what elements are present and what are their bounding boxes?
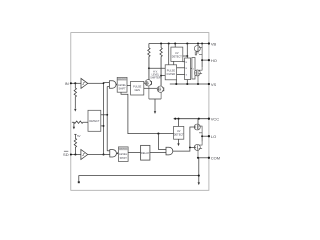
resistor R-IN pulldown (74, 83, 76, 108)
svg-text:SHIFT: SHIFT (118, 88, 126, 91)
svg-text:FILTER: FILTER (167, 73, 176, 76)
pin HO (202, 59, 209, 61)
svg-text:DETECT: DETECT (174, 134, 184, 137)
transistor QN-H (HO pull-down) (194, 67, 202, 84)
wire G1 out arrow (115, 84, 118, 86)
transistor M1 (HV level shift) (145, 58, 152, 100)
wire V2 vertical (UV/SD bus) (106, 87, 108, 151)
node B stub to pulse filter (161, 75, 165, 77)
node IN (junction dots) (70, 82, 72, 84)
svg-text:SHIFT: SHIFT (120, 157, 128, 160)
pin VCC (208, 118, 210, 120)
wire delay to gate G3 (150, 152, 166, 154)
ground arrow (level shift source) (154, 111, 156, 114)
block pulse generator U-PG (131, 81, 144, 95)
supply tick +5V (74, 133, 76, 135)
block pulse filter U-PF (165, 65, 176, 80)
svg-text:DETECT: DETECT (89, 120, 99, 123)
block driver U-D1 (192, 58, 195, 80)
wire bottom rail (79, 176, 199, 182)
resistor R-SD pullup (74, 134, 76, 154)
svg-text:IN: IN (65, 81, 69, 86)
wire HO node vertical (201, 60, 203, 67)
wire schmitt-SD to gate G2 (88, 154, 110, 156)
border frame (71, 33, 209, 191)
block delay U-DLY (141, 145, 150, 160)
wire UVD out2 (101, 125, 104, 127)
wire VB to pulse filter (168, 44, 170, 65)
svg-text:VDD/VCC: VDD/VCC (119, 149, 129, 151)
svg-text:VDD/VCC: VDD/VCC (117, 79, 127, 81)
wire LS1 to pulse gen (127, 85, 131, 87)
wire COM down to ground arrow (198, 158, 200, 183)
ground arrow (UVL) (178, 139, 180, 144)
schmitt buffer U-SD (81, 150, 88, 160)
pin VS (208, 83, 210, 85)
transistor QN-L (LO pull-down) (194, 142, 202, 158)
pin SD wire (71, 154, 81, 156)
pin IN wire (71, 82, 81, 84)
node bottom-left termination (78, 181, 80, 183)
wire G2 out arrow (116, 152, 119, 154)
svg-text:SHIFTER: SHIFTER (150, 76, 161, 79)
gate G2 (low side) (110, 150, 117, 157)
rail VCC (174, 118, 209, 120)
ground arrow (R-UVD) (73, 127, 75, 130)
wire interlock from LS1 down (121, 92, 174, 133)
wire pulse filter to VS rail (175, 80, 177, 84)
wire PG out1 to M1 gate (144, 82, 145, 84)
pin COM (198, 157, 209, 159)
wire LO node vertical (201, 136, 203, 141)
wire LS2 to delay (128, 152, 141, 154)
svg-text:5V: 5V (77, 134, 81, 138)
transistor QP-L (LO pull-up) (194, 124, 202, 136)
svg-text:DETECT: DETECT (172, 56, 182, 59)
svg-text:VS: VS (211, 82, 217, 87)
wire UVH bottom to pulse filter (173, 61, 175, 64)
svg-text:COM: COM (211, 156, 220, 161)
svg-text:LEVEL: LEVEL (119, 153, 127, 156)
schmitt buffer U-IN (81, 78, 88, 88)
block latch U-L1 (185, 58, 191, 80)
svg-text:HO: HO (211, 58, 217, 63)
wire VCC to UVL (178, 119, 180, 127)
svg-text:GEN: GEN (134, 89, 140, 92)
svg-text:SD: SD (63, 152, 69, 157)
wire V1 vertical (IN/UV bus) (103, 83, 105, 155)
wire UVD out1 (101, 114, 107, 116)
wire latch to driver (191, 67, 192, 69)
transistor QP-H (HO pull-up) (194, 46, 202, 61)
wire PG out2 to M2 gate (144, 87, 157, 89)
block UV detect low U-UVL (174, 126, 184, 139)
node A stub to pulse filter (149, 67, 165, 69)
block UV detect high U-UVH (171, 47, 183, 61)
wire schmitt-IN to gate G1 (88, 82, 104, 84)
resistor R1 (level shift load) (148, 44, 150, 81)
svg-text:LO: LO (211, 134, 216, 139)
wire G3 out to driver gates (173, 127, 195, 151)
svg-text:VCC: VCC (211, 117, 220, 122)
svg-text:LEVEL: LEVEL (118, 84, 126, 87)
rail VB (149, 43, 209, 45)
block level-shift high U-LS1 (117, 77, 127, 92)
pin LO (202, 135, 209, 137)
wire M1/M2 sources join (149, 98, 161, 100)
resistor R2 (level shift load) (160, 44, 162, 87)
wire VB to UVH (174, 44, 176, 48)
resistor R-UVD (72, 121, 88, 123)
pin VB (208, 42, 210, 44)
wire UVH to latch (183, 55, 188, 57)
ground arrow (IN pulldown) (74, 109, 76, 112)
gate G3 (LO and) (166, 147, 173, 155)
block UV detect left U-UVD (88, 110, 101, 131)
svg-text:VB: VB (211, 41, 217, 46)
block level-shift low U-LS2 (118, 147, 128, 162)
transistor M2 (HV level shift) (157, 58, 164, 100)
svg-text:DELAY: DELAY (141, 151, 150, 155)
rail VS (170, 83, 209, 85)
gate G1 (high side) (109, 81, 116, 88)
